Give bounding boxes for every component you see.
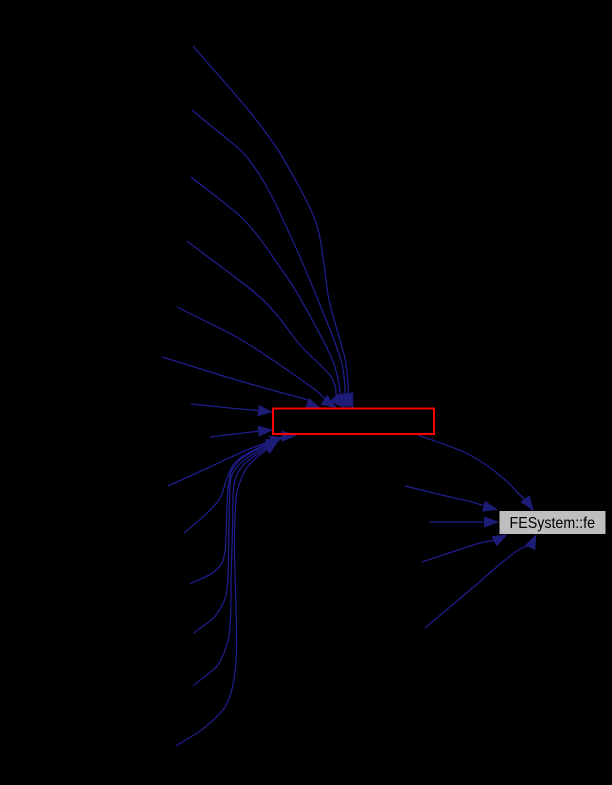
edge A5 bbox=[177, 307, 336, 408]
edge E8 bbox=[210, 426, 272, 437]
edge A2 bbox=[192, 110, 351, 408]
node current (red) bbox=[273, 409, 434, 435]
edge B2 bbox=[184, 436, 283, 533]
edge G1 bbox=[418, 435, 533, 510]
edge E7 bbox=[191, 404, 272, 416]
edge G3 bbox=[429, 517, 498, 527]
edge G5 bbox=[425, 535, 536, 628]
edge B4 bbox=[194, 441, 278, 634]
edge G2 bbox=[405, 486, 497, 511]
edge A6 bbox=[162, 357, 320, 408]
edge B6 bbox=[176, 443, 277, 747]
node FESystem::fe (grey) bbox=[500, 511, 606, 534]
edge A1 bbox=[193, 46, 353, 408]
edge A3 bbox=[191, 177, 348, 408]
edge B1 bbox=[168, 431, 296, 486]
edge B5 bbox=[193, 442, 278, 687]
edge G4 bbox=[422, 535, 507, 562]
edge B3 bbox=[190, 440, 279, 585]
edge A4 bbox=[187, 241, 344, 408]
svg-text:FESystem::fe: FESystem::fe bbox=[510, 515, 596, 532]
